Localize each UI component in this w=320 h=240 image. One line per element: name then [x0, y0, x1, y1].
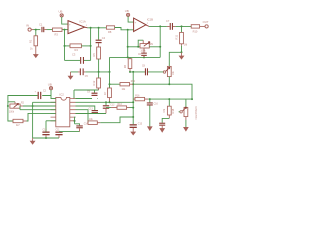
node junction AF: [74, 120, 76, 122]
wire row109.7: [20, 106, 56, 110]
svg-text:+: +: [135, 21, 137, 25]
wire row57.5: [110, 56, 161, 58]
node junction rail: [45, 137, 47, 139]
wire row83.5: [110, 83, 121, 85]
wire row98.6: [76, 98, 98, 100]
resistor R12 vertical: [92, 72, 101, 90]
wire IN to C1: [31, 29, 33, 31]
wire junction L down: [127, 30, 129, 58]
node junction R: [181, 51, 183, 53]
wire R5 down to row72: [98, 59, 100, 72]
svg-text:C9: C9: [87, 91, 91, 93]
wire pot4 wiper stub: [179, 111, 180, 113]
ground at R11: [179, 52, 183, 59]
svg-text:C1: C1: [39, 23, 43, 27]
wire pot4 bottom to ground: [185, 120, 187, 127]
capacitor C5: [78, 68, 88, 78]
svg-text:C3: C3: [72, 52, 76, 56]
resistor R16: [133, 96, 148, 101]
svg-text:R3: R3: [55, 33, 59, 37]
ground below R1: [34, 46, 38, 58]
trimmer P1: [9, 102, 25, 113]
IC2 right pins: [70, 99, 76, 121]
svg-text:C16: C16: [154, 103, 159, 105]
svg-text:10k: 10k: [122, 89, 127, 91]
capacitor C17: [159, 123, 165, 129]
resistor R18 vertical: [163, 99, 175, 118]
wire R8 to inverting input 2: [115, 28, 134, 30]
node junction C: [90, 27, 92, 29]
wire row120.8 to C10: [46, 120, 56, 122]
svg-text:R6: R6: [123, 64, 127, 68]
ground below pot4: [184, 127, 188, 130]
wire feedback bottom row left: [65, 59, 81, 61]
wire feedback right vertical: [90, 28, 92, 61]
svg-text:-: -: [69, 29, 70, 33]
svg-text:FEEDBACK: FEEDBACK: [195, 106, 198, 120]
wire row109.7 right: [76, 110, 89, 123]
trimmer P3 vertical: [163, 66, 175, 84]
wire row72: [71, 71, 110, 73]
svg-text:R7: R7: [103, 91, 107, 95]
node junction P: [159, 46, 161, 48]
capacitor C3: [72, 52, 84, 63]
wire junction O down: [159, 26, 161, 57]
wire junction D down: [98, 28, 100, 40]
resistor R13: [111, 104, 130, 109]
wire feedback row to R4: [65, 45, 71, 47]
wire C7 to R10: [175, 25, 191, 27]
svg-text:C12: C12: [110, 104, 115, 106]
svg-text:R11: R11: [174, 34, 178, 39]
wire trimmer right to column: [149, 46, 160, 48]
svg-text:IC2: IC2: [60, 92, 65, 96]
resistor R14: [120, 81, 136, 91]
wire row113.5: [76, 113, 107, 115]
wire C14 bottom to C11 top: [59, 131, 80, 133]
svg-text:C4: C4: [102, 36, 106, 40]
wire C2 left to pot column: [8, 96, 38, 107]
IC2 left pins: [51, 99, 56, 121]
supply pin UB2: [127, 13, 130, 16]
wire R17 right to row113.4: [27, 113, 56, 121]
svg-text:R14: R14: [131, 81, 136, 83]
svg-text:IN: IN: [26, 24, 29, 28]
svg-text:47k: 47k: [163, 108, 166, 113]
svg-text:R12: R12: [92, 80, 96, 85]
svg-text:R8: R8: [108, 30, 112, 34]
wire R18 to C17: [162, 118, 169, 122]
wire ground rail: [33, 137, 59, 139]
svg-text:C7: C7: [166, 19, 170, 23]
svg-text:IC1A: IC1A: [80, 20, 86, 24]
wire junction A down: [35, 30, 37, 36]
op-amp IC1B: [134, 17, 154, 31]
svg-text:C2: C2: [43, 90, 47, 92]
node junction W: [168, 83, 170, 85]
capacitor C10: [42, 130, 49, 138]
ground left of row72: [68, 72, 72, 79]
svg-text:+: +: [69, 22, 71, 26]
ground at rail: [31, 138, 35, 144]
resistor R5: [92, 47, 101, 59]
svg-text:UB: UB: [48, 83, 52, 87]
wire to trimmer left: [128, 46, 140, 48]
wire row83.5 right: [133, 84, 192, 99]
wire wiper loop pot1: [8, 101, 15, 103]
trimmer R9 (gain): [140, 40, 154, 52]
svg-text:100k: 100k: [141, 51, 147, 53]
wire row90: [74, 89, 99, 91]
resistor R3: [53, 28, 64, 37]
node junction N: [137, 46, 139, 48]
wire pot1 right to IC2: [23, 105, 56, 107]
op-amp IC1A: [68, 20, 88, 34]
node junction Q: [181, 25, 183, 27]
resistor R7 vertical: [103, 84, 112, 102]
capacitor C16: [147, 99, 159, 127]
capacitor C8: [142, 66, 148, 76]
svg-text:R1: R1: [29, 39, 33, 43]
svg-text:R10: R10: [193, 29, 198, 33]
wire junction Z up to row102.3: [33, 102, 56, 106]
wire UB3 down to row95.5: [42, 90, 56, 99]
svg-text:R5: R5: [92, 53, 96, 57]
node junction AI: [168, 98, 170, 100]
svg-text:C5: C5: [85, 76, 89, 78]
node junction U: [132, 83, 134, 85]
pin IN: [28, 28, 31, 31]
wire stage2 mid vertical: [109, 57, 111, 88]
resistor R4: [70, 44, 81, 52]
wire row100.3: [148, 98, 192, 100]
ground below C15: [131, 132, 135, 135]
capacitor C14: [75, 124, 89, 132]
node junction AA: [105, 101, 107, 103]
wire UB2 to non-inverting input 2: [128, 17, 134, 23]
node junction L: [127, 29, 129, 31]
svg-text:OUT: OUT: [203, 20, 209, 24]
resistor R11 vertical: [174, 26, 187, 46]
svg-text:R9: R9: [150, 43, 154, 46]
resistor R10: [191, 25, 205, 34]
node junction J: [127, 56, 129, 58]
svg-text:100k: 100k: [9, 111, 15, 113]
capacitor C12: [103, 102, 115, 113]
resistor R8: [106, 26, 114, 34]
wire row106 to C13: [76, 106, 95, 110]
node junction AD: [132, 107, 134, 109]
node junction K: [143, 56, 145, 58]
node junction E: [64, 45, 66, 47]
wire junction Z down to ground rail: [32, 106, 34, 138]
ground below C17: [160, 129, 164, 132]
wire C3 to output column: [84, 59, 91, 61]
svg-text:IC1B: IC1B: [147, 17, 153, 21]
node junction AJ: [191, 98, 193, 100]
svg-text:C10: C10: [43, 130, 48, 132]
node junction T: [132, 71, 134, 73]
svg-text:2: 2: [147, 23, 149, 25]
svg-text:1k: 1k: [30, 48, 33, 51]
svg-text:4k7: 4k7: [16, 125, 20, 127]
svg-text:R2: R2: [21, 102, 25, 104]
node junction Z: [32, 105, 34, 107]
svg-text:C6: C6: [138, 54, 142, 56]
node junction G: [98, 71, 100, 73]
svg-text:UB: UB: [59, 10, 63, 14]
node junction H: [109, 71, 111, 73]
capacitor C7: [166, 19, 175, 30]
svg-text:+: +: [35, 91, 37, 93]
wire column133: [132, 72, 134, 117]
capacitor C13: [89, 109, 99, 114]
svg-text:10k: 10k: [173, 70, 175, 75]
wire row120.9 right: [75, 120, 76, 122]
wire R3 to inverting input: [63, 29, 68, 31]
svg-text:UB: UB: [125, 9, 129, 13]
capacitor C15: [130, 117, 143, 132]
capacitor C6: [138, 48, 147, 57]
node junction V: [109, 83, 111, 85]
svg-text:C15: C15: [138, 124, 143, 126]
svg-text:1M: 1M: [184, 45, 187, 47]
wire row117.2 right: [75, 117, 76, 124]
node junction AC: [132, 101, 134, 103]
resistor R17: [13, 119, 27, 127]
node junction AH: [149, 98, 151, 100]
node junction S: [129, 71, 131, 73]
wire output IC1A: [85, 26, 88, 29]
supply pin UB3: [49, 87, 52, 90]
node junction D: [98, 27, 100, 29]
node junction B (feedback tap): [64, 29, 66, 31]
node junction AB: [109, 101, 111, 103]
resistor R15: [88, 119, 100, 125]
svg-text:R13: R13: [118, 104, 123, 106]
wire UB1 to non-inverting input: [62, 17, 68, 24]
svg-text:1: 1: [86, 25, 88, 27]
resistor R6 vertical: [123, 57, 132, 72]
node junction A: [35, 29, 37, 31]
node junction F: [90, 45, 92, 47]
pin OUT: [205, 25, 208, 28]
capacitor C11: [55, 130, 62, 138]
wire R15 right up to row117: [100, 117, 133, 123]
wire R11 to ground node: [181, 46, 183, 53]
svg-text:R16: R16: [135, 96, 140, 98]
trimmer P4 feedback: [180, 99, 188, 120]
capacitor C1: [39, 23, 47, 33]
wire trimmer wiper loop: [138, 40, 143, 47]
node junction O: [159, 25, 161, 27]
ground below C16: [148, 127, 152, 130]
wire feedback left vertical: [64, 30, 66, 61]
node junction AG: [132, 116, 134, 118]
wire pot column down to R17: [8, 106, 13, 121]
svg-text:C8: C8: [142, 66, 146, 68]
svg-text:R4: R4: [75, 48, 79, 52]
capacitor C2: [35, 90, 47, 99]
wire junction R to trimmer top: [169, 52, 181, 66]
IC2 body: [56, 92, 70, 126]
svg-text:-: -: [135, 27, 136, 31]
supply pin UB1: [60, 14, 63, 17]
wire wiper row71.9: [130, 71, 163, 73]
resistor R1: [29, 36, 38, 51]
capacitor C4: [96, 36, 106, 47]
wire C1 to R3: [47, 29, 53, 31]
wire row102.3 right of IC2: [76, 101, 134, 103]
node junction M: [127, 46, 129, 48]
svg-text:R18: R18: [171, 108, 175, 113]
capacitor C9: [87, 90, 98, 96]
wire output IC1B: [146, 25, 149, 26]
node junction Y: [7, 105, 9, 107]
wire R4 to output column: [81, 45, 90, 47]
